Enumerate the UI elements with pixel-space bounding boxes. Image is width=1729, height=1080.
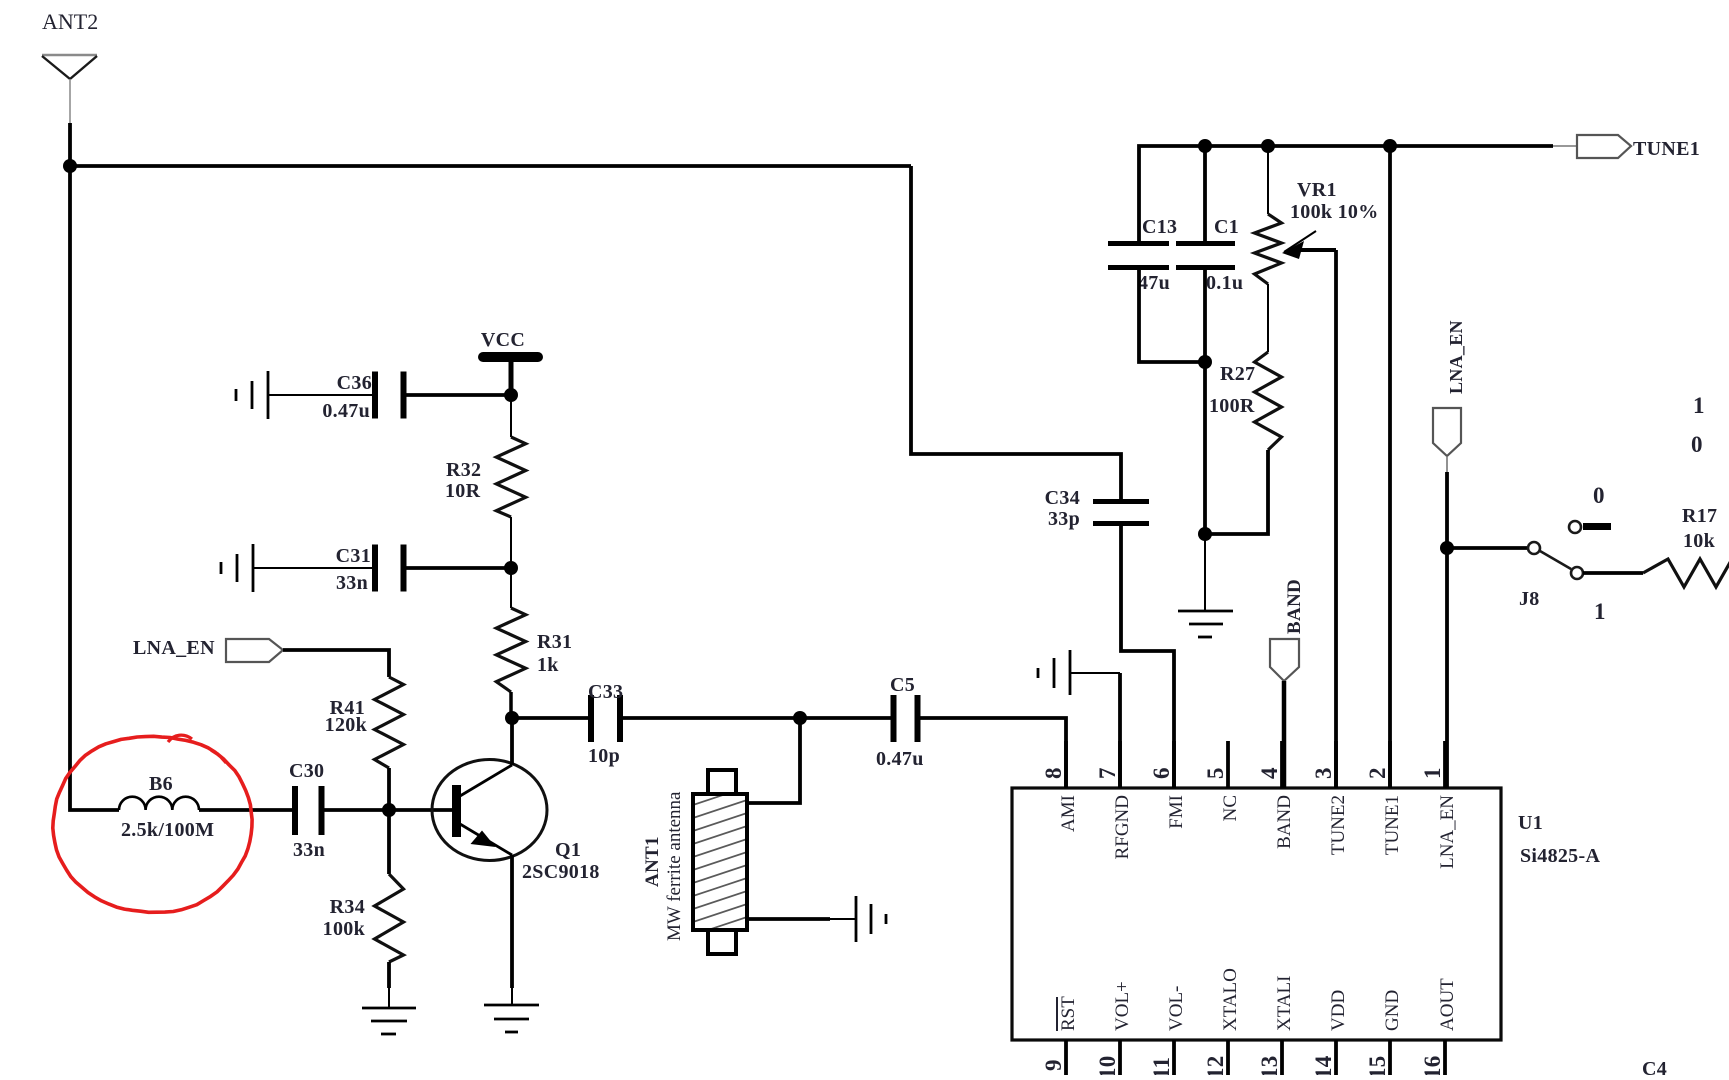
wire base node to Q1 base — [389, 808, 452, 812]
svg-text:LNA_EN: LNA_EN — [1446, 320, 1466, 394]
wire collector node to C33 — [512, 716, 589, 720]
pin 8 AMI — [1041, 741, 1079, 832]
svg-text:GND: GND — [1382, 990, 1403, 1031]
wire C1 bottom to R27 node — [1203, 270, 1207, 534]
svg-text:100k 10%: 100k 10% — [1290, 201, 1379, 223]
ground right of ANT1 — [856, 896, 886, 942]
ground below Q1 emitter — [484, 1005, 539, 1032]
svg-text:VCC: VCC — [481, 329, 525, 351]
ground at RFGND — [1038, 650, 1070, 695]
svg-text:XTALI: XTALI — [1274, 976, 1295, 1031]
svg-text:33p: 33p — [1048, 508, 1080, 530]
svg-text:R34: R34 — [330, 896, 365, 918]
svg-text:3: 3 — [1311, 767, 1336, 779]
svg-text:VOL+: VOL+ — [1112, 981, 1133, 1031]
wire ANT1 node to C5 — [800, 716, 892, 720]
svg-text:C36: C36 — [337, 372, 372, 394]
svg-text:120k: 120k — [325, 714, 368, 736]
wire net ANT2 top horizontal — [70, 164, 911, 168]
svg-text:16: 16 — [1420, 1055, 1445, 1075]
transistor Q1 — [432, 760, 547, 861]
svg-text:LNA_EN: LNA_EN — [1437, 795, 1458, 869]
svg-text:R31: R31 — [537, 631, 572, 653]
svg-text:Q1: Q1 — [555, 839, 581, 861]
resistor R41 — [375, 677, 404, 768]
svg-text:2SC9018: 2SC9018 — [522, 861, 600, 883]
svg-text:1k: 1k — [537, 654, 559, 676]
svg-text:2.5k/100M: 2.5k/100M — [121, 819, 214, 841]
svg-text:13: 13 — [1257, 1055, 1282, 1075]
wire LNA_EN to R41 — [283, 650, 389, 677]
svg-text:R32: R32 — [446, 459, 481, 481]
svg-text:VR1: VR1 — [1297, 179, 1337, 201]
junction rail VR1 — [1261, 139, 1275, 153]
capacitor C30 — [292, 786, 325, 835]
connector LNA_EN left — [226, 639, 283, 662]
pin 1 LNA_EN — [1420, 741, 1458, 869]
pin 11 VOL- — [1149, 986, 1187, 1079]
wire Q1 emitter down — [510, 855, 514, 988]
svg-text:7: 7 — [1095, 767, 1120, 779]
pin 2 TUNE1 — [1365, 741, 1403, 855]
wire C33 to ANT1 node — [622, 716, 800, 720]
resistor R34 — [375, 874, 404, 962]
inductor B6 — [119, 797, 199, 810]
svg-text:B6: B6 — [149, 773, 173, 795]
antenna ANT2 — [42, 55, 97, 123]
pin 4 BAND — [1257, 741, 1295, 849]
svg-text:VOL-: VOL- — [1166, 986, 1187, 1031]
svg-text:BAND: BAND — [1274, 795, 1295, 849]
wire LNA_EN connector to junction — [1446, 456, 1448, 472]
svg-text:R27: R27 — [1220, 363, 1255, 385]
svg-text:100R: 100R — [1209, 395, 1255, 417]
wire R41 to base node — [387, 768, 391, 810]
svg-text:ANT2: ANT2 — [42, 9, 98, 34]
connector TUNE1 — [1577, 135, 1631, 158]
pin 12 XTALO — [1203, 968, 1241, 1079]
ground left of C31 — [221, 544, 372, 592]
svg-text:15: 15 — [1365, 1055, 1390, 1075]
wire net TUNE1 top rail — [1139, 146, 1553, 242]
svg-text:10R: 10R — [445, 480, 481, 502]
resistor R17 — [1643, 559, 1729, 587]
svg-text:1: 1 — [1420, 767, 1445, 779]
junction rail pin2 — [1383, 139, 1397, 153]
svg-text:J8: J8 — [1519, 588, 1540, 610]
junction base node — [382, 803, 396, 817]
wire VR1 to R27 — [1267, 284, 1269, 352]
svg-text:LNA_EN: LNA_EN — [133, 637, 215, 659]
wire ANT1 bottom to ground — [749, 917, 830, 921]
svg-text:1: 1 — [1594, 599, 1606, 624]
wire rail to pin 2 TUNE1 — [1388, 146, 1392, 788]
svg-text:TUNE2: TUNE2 — [1328, 795, 1349, 855]
svg-text:FMI: FMI — [1166, 795, 1187, 829]
svg-text:RFGND: RFGND — [1112, 795, 1133, 859]
svg-text:100k: 100k — [323, 918, 366, 940]
svg-text:6: 6 — [1149, 767, 1174, 779]
svg-text:10k: 10k — [1683, 530, 1716, 552]
wire net ANT2 left vertical — [70, 166, 119, 810]
junction node ANT2 — [63, 159, 77, 173]
svg-text:U1: U1 — [1518, 812, 1543, 834]
junction rail C1 — [1198, 139, 1212, 153]
wire Q1 collector to node — [510, 718, 514, 765]
antenna ANT1 MW ferrite — [690, 770, 750, 954]
svg-text:14: 14 — [1311, 1055, 1336, 1075]
svg-text:C33: C33 — [588, 681, 623, 703]
capacitor C13 — [1108, 241, 1169, 270]
capacitor C5 — [891, 695, 921, 742]
pin 13 XTALI — [1257, 976, 1295, 1079]
capacitor C34 — [1093, 499, 1149, 526]
svg-text:C30: C30 — [289, 760, 324, 782]
junction LNA_EN J8 — [1440, 541, 1454, 555]
svg-text:AMI: AMI — [1058, 795, 1079, 832]
svg-text:1: 1 — [1693, 393, 1705, 418]
switch J8 — [1528, 521, 1611, 579]
resistor R32 — [510, 395, 512, 437]
wire C5 to pin 8 AMI — [919, 718, 1066, 788]
capacitor C1 — [1176, 241, 1235, 270]
junction R32 R31 node — [504, 561, 518, 575]
junction collector node — [505, 711, 519, 725]
pin 10 VOL+ — [1095, 981, 1133, 1079]
svg-text:12: 12 — [1203, 1055, 1228, 1075]
svg-text:ANT1: ANT1 — [642, 836, 663, 887]
power VCC — [478, 352, 543, 395]
svg-text:BAND: BAND — [1284, 579, 1305, 634]
svg-text:10: 10 — [1095, 1055, 1120, 1075]
wire node to ground — [1204, 534, 1206, 610]
ground left of C36 — [236, 371, 372, 419]
annotation red circle around B6 — [53, 736, 252, 912]
svg-text:C13: C13 — [1142, 216, 1177, 238]
svg-text:MW ferrite antenna: MW ferrite antenna — [664, 791, 685, 941]
pin 16 AOUT — [1420, 978, 1458, 1079]
pin 7 RFGND — [1095, 741, 1133, 859]
svg-text:Si4825-A: Si4825-A — [1520, 845, 1600, 867]
pin 15 GND — [1365, 990, 1403, 1079]
svg-text:XTALO: XTALO — [1220, 968, 1241, 1031]
junction R27 node — [1198, 527, 1212, 541]
wire C34 to pin 6 FMI — [1121, 525, 1174, 788]
svg-text:33n: 33n — [336, 572, 368, 594]
capacitor C31 — [372, 545, 407, 592]
svg-text:C34: C34 — [1045, 487, 1080, 509]
potentiometer VR1 — [1267, 146, 1269, 214]
svg-text:0: 0 — [1593, 483, 1605, 508]
svg-text:0.1u: 0.1u — [1206, 272, 1243, 294]
pin 9 RST — [1041, 996, 1079, 1075]
svg-text:C5: C5 — [890, 674, 915, 696]
svg-text:8: 8 — [1041, 767, 1066, 779]
svg-text:0: 0 — [1691, 432, 1703, 457]
svg-text:10p: 10p — [588, 745, 620, 767]
capacitor C33 — [588, 695, 623, 742]
pin 6 FMI — [1149, 741, 1187, 829]
svg-text:11: 11 — [1149, 1057, 1174, 1075]
wire junction to pin 1 LNA_EN — [1445, 548, 1449, 788]
junction C13 C1 — [1198, 355, 1212, 369]
svg-text:VDD: VDD — [1328, 990, 1349, 1031]
svg-text:9: 9 — [1041, 1059, 1066, 1071]
svg-text:TUNE1: TUNE1 — [1633, 138, 1700, 160]
pin 5 NC — [1203, 741, 1241, 821]
svg-text:33n: 33n — [293, 839, 325, 861]
wire R27 to node — [1205, 450, 1268, 534]
wire C30 to base node — [321, 808, 389, 812]
wire B6 to C30 — [199, 808, 293, 812]
junction ANT1 node — [793, 711, 807, 725]
wire junction to J8 — [1447, 546, 1528, 550]
wire BAND to pin 4 — [1282, 681, 1287, 788]
svg-text:2: 2 — [1365, 767, 1390, 779]
connector LNA_EN right — [1433, 408, 1461, 456]
ground below C1 — [1178, 611, 1233, 637]
svg-text:TUNE1: TUNE1 — [1382, 795, 1403, 855]
svg-text:C4: C4 — [1642, 1058, 1667, 1075]
wire C1 top to rail — [1203, 146, 1207, 241]
capacitor C36 — [372, 372, 407, 419]
op-amp U1 Si4825-A IC body — [1012, 788, 1501, 1040]
svg-text:47u: 47u — [1138, 272, 1170, 294]
wire C13 bottom to C1 column — [1139, 270, 1205, 362]
resistor R31 — [510, 568, 512, 608]
wire ANT2 antenna lead — [68, 123, 72, 166]
wire C31 to R32 node — [405, 566, 511, 570]
pin 3 TUNE2 — [1311, 741, 1349, 855]
resistor R27 — [1255, 352, 1282, 450]
wire R34 to ground — [387, 962, 391, 988]
wire net ANT2 to C34 — [911, 166, 1121, 501]
svg-text:5: 5 — [1203, 767, 1228, 779]
ground below R34 — [362, 1008, 416, 1034]
wire base node to R34 — [387, 810, 391, 874]
svg-text:4: 4 — [1257, 767, 1282, 779]
svg-text:AOUT: AOUT — [1437, 978, 1458, 1031]
svg-text:RST: RST — [1058, 996, 1079, 1031]
pin 14 VDD — [1311, 990, 1349, 1079]
wire VR1 wiper to pin 3 TUNE2 — [1334, 250, 1338, 788]
svg-text:NC: NC — [1220, 795, 1241, 821]
connector BAND — [1270, 639, 1299, 681]
wire J8 to R17 — [1583, 571, 1643, 575]
svg-text:C31: C31 — [336, 545, 371, 567]
wire pin 7 RFGND to ground — [1118, 673, 1122, 788]
svg-text:0.47u: 0.47u — [322, 400, 370, 422]
wire C36 to VCC node — [405, 393, 511, 397]
wire node down to ANT1 top — [749, 718, 800, 803]
svg-text:C1: C1 — [1214, 216, 1239, 238]
svg-text:R17: R17 — [1682, 505, 1717, 527]
svg-text:0.47u: 0.47u — [876, 748, 924, 770]
junction VCC node — [504, 388, 518, 402]
